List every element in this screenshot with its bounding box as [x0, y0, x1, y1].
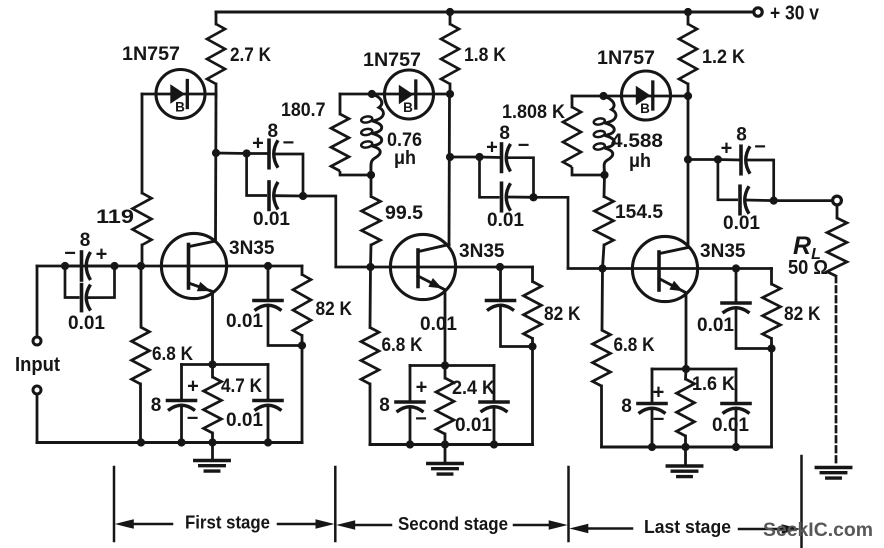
svg-text:First stage: First stage [185, 513, 270, 533]
wire 1.8K top lead [449, 12, 452, 24]
wire Q1 collector line [214, 96, 217, 241]
wire stage3 8cap bottom lead [651, 410, 654, 447]
wire RL top lead [836, 205, 839, 218]
wire L2 junction to 154.5 [603, 175, 606, 197]
resistor R 6.8K stage3 [593, 330, 611, 386]
wire 180.7 bottom lead [340, 171, 371, 175]
label Input [15, 354, 60, 376]
label 82 K stage1 [316, 298, 353, 320]
svg-text:SeekIC.com: SeekIC.com [763, 519, 873, 541]
svg-text:8: 8 [151, 395, 162, 416]
resistor R 6.8K stage2 [361, 328, 379, 385]
label + coupling1 [252, 133, 264, 155]
node stage1 base-cap junction [264, 262, 272, 270]
wire stage2 82K to rail [531, 347, 534, 445]
svg-text:B: B [175, 100, 185, 115]
svg-text:Input: Input [15, 354, 60, 376]
label 0.01 stage2 emitter [455, 414, 492, 436]
svg-text:4.588: 4.588 [611, 130, 663, 152]
wire stage2 82K bottom lead [531, 339, 534, 347]
wire stage1 0.01cap top lead [267, 365, 270, 401]
wire input top lead [36, 266, 39, 337]
capacitor 0.01 coupling2 [502, 183, 511, 211]
wire stage3 82K bottom lead [770, 339, 773, 349]
label 1.2 K [702, 46, 745, 68]
label 0.76 [387, 129, 422, 151]
node stage2 ground junction [441, 440, 449, 448]
wire stage3 8cap top lead [651, 369, 654, 404]
resistor R 82K stage1 [293, 275, 311, 336]
wire second stage right arrow [514, 520, 568, 530]
wire stage divider 4 [800, 456, 803, 548]
wire 1.6K top lead [684, 369, 687, 379]
wire coupling2 cap lead [480, 156, 500, 159]
wire stage2 ground rail [370, 443, 533, 446]
wire stage1 6.8K top lead [140, 266, 143, 327]
node coil L2 top junction [599, 92, 607, 100]
label 4.7 K [221, 375, 262, 397]
label 8 coupling2 [499, 123, 510, 144]
wire stage3 base line [568, 267, 772, 270]
wire input 0.01 lower right [88, 266, 115, 298]
label 0.01 stage2 base [420, 313, 457, 335]
wire coupling3 cap lead [718, 158, 739, 161]
svg-text:−: − [754, 136, 766, 158]
diode zener D1 1N757 lead wire [142, 93, 216, 96]
resistor R 4.7K [204, 377, 222, 433]
capacitor 0.01 coupling3 [740, 186, 749, 214]
wire stage3 base-cap bottom lead [736, 310, 772, 349]
label - coupling1 [283, 132, 295, 154]
svg-text:0.01: 0.01 [68, 312, 105, 334]
wire 2.7K bottom lead to zener node [215, 84, 218, 96]
wire coupling2 top [450, 156, 480, 159]
svg-text:119: 119 [96, 206, 134, 228]
ground RL [816, 468, 851, 479]
label D1 1N757 [122, 43, 180, 65]
label 0.01 stage3 base [697, 314, 734, 336]
label 8 coupling3 [736, 125, 747, 146]
node coupling3 left [714, 155, 722, 163]
node Q1 emitter junction [208, 360, 216, 368]
wire RL dashed ground line [835, 277, 838, 467]
svg-text:4.7 K: 4.7 K [221, 375, 262, 397]
svg-text:50 Ω: 50 Ω [788, 257, 828, 279]
resistor R 180.7 [331, 114, 349, 171]
label 99.5 [385, 202, 423, 224]
svg-text:−: − [653, 409, 665, 431]
svg-text:−: − [415, 408, 427, 430]
svg-text:180.7: 180.7 [281, 99, 326, 121]
svg-text:−: − [187, 408, 199, 430]
label 0.01 coupling2 [487, 209, 524, 231]
node stage2 base node [366, 263, 374, 271]
label 6.8 K stage2 [382, 334, 423, 356]
label First stage [185, 513, 270, 533]
label Q3 3N35 [700, 240, 746, 262]
svg-text:1.808 K: 1.808 K [502, 101, 565, 123]
node rail-1.8K junction [446, 8, 454, 16]
label 2.4 K [452, 377, 495, 399]
wire Q3 collector line [687, 97, 690, 248]
svg-text:3N35: 3N35 [700, 240, 746, 262]
terminal input top [33, 337, 41, 345]
node coil L2 bottom junction [600, 171, 608, 179]
svg-text:+: + [416, 377, 428, 399]
wire stage1 82K bottom lead [301, 336, 304, 346]
transistor Q2 3N35 [390, 234, 455, 299]
wire Q2 collector diag [419, 245, 450, 252]
wire stage3 6.8K bottom lead [600, 386, 603, 447]
emitter Q2 arrow [418, 276, 446, 290]
wire Q3 collector diag [660, 248, 689, 254]
node stage3 base-cap junction [732, 264, 740, 272]
node stage2 collector coupling [446, 153, 454, 161]
svg-text:Second stage: Second stage [398, 514, 508, 534]
label 0.01 stage1 base [226, 310, 263, 332]
label + stage1 emitter [187, 376, 199, 398]
svg-text:1.2 K: 1.2 K [702, 46, 745, 68]
wire coupling3 lower right [746, 199, 774, 202]
label 82 K stage3 [784, 303, 821, 325]
wire stage1 base-cap top lead [267, 266, 270, 301]
svg-text:6.8 K: 6.8 K [382, 334, 423, 356]
wire Q2 collector line [448, 96, 451, 245]
wire coupling1 top [216, 152, 247, 155]
ground stage3 [667, 466, 702, 477]
svg-text:1.8 K: 1.8 K [464, 44, 506, 66]
wire stage2 8cap top lead [409, 366, 412, 403]
svg-text:+: + [187, 376, 199, 398]
svg-text:0.01: 0.01 [420, 313, 457, 335]
wire stage divider 3 [567, 467, 570, 541]
svg-text:82 K: 82 K [316, 298, 353, 320]
resistor R 1.2K [679, 24, 697, 84]
label RL [793, 232, 821, 263]
node stage1 0.01cap rail [264, 438, 272, 446]
diode zener D1 1N757 [156, 70, 205, 119]
wire Q1 collector diag [189, 241, 216, 247]
wire stage1 emitter top line [182, 363, 269, 366]
transistor Q3 3N35 [632, 236, 697, 301]
node stage3 8cap rail [648, 443, 656, 451]
label 180.7 [281, 99, 326, 121]
label 50 ohm [788, 257, 828, 279]
label uh L1 [394, 147, 416, 169]
svg-text:1.6 K: 1.6 K [692, 373, 735, 395]
label 4.588 [611, 130, 663, 152]
inductor L1 0.76uh [361, 94, 384, 175]
wire stage3 82K to rail [770, 349, 773, 448]
label - stage2 emitter [415, 408, 427, 430]
node stage2 0.01cap rail [490, 440, 498, 448]
wire 1.6K bottom lead [684, 436, 687, 447]
svg-text:0.01: 0.01 [226, 310, 263, 332]
capacitor 0.01 coupling1 [269, 182, 278, 210]
svg-text:6.8 K: 6.8 K [614, 334, 655, 356]
wire 1.2K top lead [687, 12, 690, 24]
wire first stage right arrow [278, 519, 335, 529]
wire stage3 ground lead [684, 447, 687, 466]
label - stage1 emitter [187, 408, 199, 430]
wire L1 junction to 99.5 [370, 175, 373, 197]
label 1.8 K [464, 44, 506, 66]
wire D3 left lead down [571, 96, 574, 107]
inductor L2 4.588uh [593, 96, 616, 175]
wire D2 left lead down [339, 94, 342, 114]
resistor R 1.8K [441, 24, 459, 84]
wire stage2 emitter top line [410, 364, 494, 367]
node Q3 emitter junction [682, 365, 690, 373]
wire D1 left lead down [141, 94, 144, 193]
svg-text:0.01: 0.01 [487, 209, 524, 231]
svg-text:Last stage: Last stage [644, 517, 731, 537]
label SeekIC.com watermark [763, 519, 873, 541]
svg-text:0.01: 0.01 [723, 212, 760, 234]
label Second stage [398, 514, 508, 534]
capacitor 0.01 stage1 base [254, 301, 282, 311]
node stage1 6.8K rail [137, 438, 145, 446]
wire stage3 0.01cap top lead [735, 369, 738, 404]
svg-text:+ 30 v: + 30 v [770, 3, 820, 25]
wire stage1 82K to rail [301, 346, 304, 443]
svg-text:B: B [640, 101, 650, 116]
label uh L2 [629, 150, 651, 172]
label 8 coupling1 [268, 121, 279, 142]
wire first stage left arrow [115, 519, 172, 529]
node D3-R1.2K junction [684, 92, 692, 100]
wire stage1 ground rail [37, 441, 302, 444]
svg-text:0.01: 0.01 [253, 208, 290, 230]
wire coupling1 right top [275, 154, 303, 196]
resistor R 2.4K [436, 378, 454, 434]
label Q2 3N35 [459, 240, 505, 262]
wire input 0.01 lower left [65, 266, 80, 298]
node stage3 ground junction [681, 443, 689, 451]
wire stage2 base-cap bottom lead [501, 307, 533, 347]
resistor R 1.6K [677, 379, 695, 436]
svg-text:−: − [64, 243, 76, 265]
diode zener D2 1N757 lead wire [340, 93, 450, 96]
transistor Q1 3N35 [161, 233, 226, 298]
wire 4.7K bottom lead [211, 433, 214, 443]
node stage3 82K bottom [767, 344, 775, 352]
wire stage3 base-cap top lead [735, 269, 738, 304]
wire coupling1 lower right [275, 194, 303, 197]
svg-text:1N757: 1N757 [597, 47, 655, 69]
svg-text:3N35: 3N35 [229, 237, 275, 259]
label 8 stage3 emitter [621, 396, 632, 417]
wire second stage left arrow [336, 520, 391, 530]
label D3 1N757 [597, 47, 655, 69]
svg-text:8: 8 [499, 123, 510, 144]
svg-text:μh: μh [394, 147, 416, 169]
svg-text:+: + [486, 137, 498, 159]
wire stage3 emitter top line [652, 368, 736, 371]
label 0.01 stage1 emitter [226, 409, 263, 431]
label - coupling2 [518, 135, 530, 157]
resistor R 99.5 [362, 197, 381, 246]
wire stage1 6.8K bottom lead [139, 384, 142, 443]
node input cap left [61, 262, 69, 270]
terminal output [833, 196, 842, 205]
wire coupling2 to stage3 base [534, 197, 569, 268]
wire stage2 base line [336, 266, 533, 269]
wire input cap right [88, 265, 115, 268]
svg-text:+: + [721, 138, 733, 160]
diode zener D3 1N757 [622, 71, 671, 120]
node coupling2 left [475, 153, 483, 161]
wire input bottom lead [36, 394, 39, 443]
wire 1.2K bottom lead [687, 84, 690, 97]
label 6.8 K stage3 [614, 334, 655, 356]
wire 99.5 to base node [369, 245, 372, 267]
svg-text:3N35: 3N35 [459, 240, 505, 262]
wire 4.7K top lead [211, 365, 214, 378]
wire Q1 emitter line [211, 292, 214, 365]
node stage1 base node [137, 262, 145, 270]
wire coupling1 lower left [247, 154, 267, 196]
emitter Q1 arrow [189, 282, 214, 292]
wire coupling1 cap lead [247, 152, 267, 155]
svg-text:1N757: 1N757 [122, 43, 180, 65]
wire 119 to base node [141, 245, 144, 266]
label - coupling3 [754, 136, 766, 158]
wire +30V supply rail [216, 11, 753, 14]
wire 2.4K top lead [444, 366, 447, 379]
wire coupling3 top [688, 158, 718, 161]
svg-text:82 K: 82 K [784, 303, 821, 325]
label - input cap [64, 243, 76, 265]
resistor R 82K stage2 [524, 282, 542, 339]
label + input cap [96, 244, 108, 266]
wire last stage right arrow [739, 524, 801, 534]
label D1 B [175, 100, 185, 115]
svg-text:8: 8 [80, 230, 91, 251]
node stage3 collector coupling [684, 155, 692, 163]
wire last stage left arrow [569, 524, 632, 534]
wire stage3 82K top lead [770, 269, 773, 285]
label D2 B [403, 100, 413, 115]
wire stage1 base line [37, 265, 302, 268]
wire stage2 6.8K top lead [369, 267, 372, 328]
label 8 stage2 emitter [379, 395, 390, 416]
label Q1 3N35 [229, 237, 275, 259]
wire stage2 0.01cap top lead [493, 366, 496, 403]
wire stage2 ground lead [444, 445, 447, 464]
node input cap right [110, 262, 118, 270]
node stage1 ground junction [208, 438, 216, 446]
terminal input bottom [33, 386, 41, 394]
label 0.01 stage3 emitter [712, 414, 749, 436]
node stage2 82K bottom [528, 342, 536, 350]
node coil L1 bottom junction [367, 171, 375, 179]
svg-text:82 K: 82 K [544, 303, 581, 325]
diode zener D3 1N757 lead wire [572, 95, 688, 98]
label 119 [96, 206, 134, 228]
wire 1.8K bottom lead [449, 84, 452, 96]
capacitor 8 stage2 emitter [396, 402, 424, 412]
svg-text:+: + [252, 133, 264, 155]
label D3 B [640, 101, 650, 116]
svg-text:1N757: 1N757 [363, 49, 421, 71]
svg-text:8: 8 [736, 125, 747, 146]
capacitor 8 stage3 emitter [638, 404, 666, 414]
label 0.01 coupling3 [723, 212, 760, 234]
wire stage1 0.01cap bottom lead [267, 407, 270, 443]
node stage1 collector coupling [212, 149, 220, 157]
svg-text:+: + [96, 244, 108, 266]
capacitor 0.01 stage3 base [722, 303, 750, 313]
wire stage2 8cap bottom lead [409, 409, 412, 445]
resistor R 119 [133, 193, 152, 245]
capacitor 0.01 stage1 emitter [254, 401, 282, 411]
wire coupling2 right top [508, 158, 534, 198]
svg-text:0.01: 0.01 [712, 414, 749, 436]
wire stage divider 2 [334, 467, 337, 541]
label 0.01 coupling1 [253, 208, 290, 230]
resistor RL 50ohm [827, 218, 847, 277]
node coupling2 right [529, 193, 537, 201]
svg-text:99.5: 99.5 [385, 202, 423, 224]
label - stage3 emitter [653, 409, 665, 431]
wire stage2 6.8K bottom lead [369, 384, 372, 445]
wire 1.808K bottom lead [572, 167, 605, 175]
wire input cap lead [65, 265, 80, 268]
label D2 1N757 [363, 49, 421, 71]
node D2-R1.8K junction [446, 90, 454, 98]
wire stage1 8cap bottom lead [180, 407, 183, 443]
capacitor 0.01 stage2 emitter [480, 402, 508, 412]
label 1.6 K [692, 373, 735, 395]
node Q2 emitter junction [441, 361, 449, 369]
svg-text:6.8 K: 6.8 K [152, 343, 193, 365]
wire stage1 base-cap bottom lead [268, 307, 302, 346]
wire Q2 emitter line [444, 293, 447, 366]
wire coupling2 lower left [480, 157, 500, 197]
svg-text:2.4 K: 2.4 K [452, 377, 495, 399]
resistor R 82K stage3 [763, 284, 781, 339]
label 1.808 K [502, 101, 565, 123]
node stage1 8cap rail [177, 438, 185, 446]
label 6.8 K stage1 [152, 343, 193, 365]
node stage3 0.01cap rail [732, 443, 740, 451]
wire stage2 base-cap top lead [499, 267, 502, 301]
label + stage3 emitter [653, 382, 665, 404]
label + coupling2 [486, 137, 498, 159]
svg-text:0.01: 0.01 [455, 414, 492, 436]
node coupling1 right [299, 192, 307, 200]
label 2.7 K [230, 44, 271, 66]
capacitor 8 input [82, 252, 91, 280]
ground stage1 [195, 461, 230, 472]
svg-text:154.5: 154.5 [615, 201, 663, 223]
label 0.01 input [68, 312, 105, 334]
terminal +30 v [754, 8, 762, 16]
wire stage1 8cap top lead [180, 365, 183, 401]
svg-text:B: B [403, 100, 413, 115]
node coil L1 top junction [368, 90, 376, 98]
wire stage2 0.01cap bottom lead [493, 409, 496, 445]
capacitor 8 coupling3 [741, 146, 750, 174]
label 82 K stage2 [544, 303, 581, 325]
label +30 v [770, 3, 820, 25]
wire stage3 6.8K top lead [601, 269, 604, 331]
capacitor 8 stage1 emitter [168, 401, 196, 411]
svg-text:8: 8 [379, 395, 390, 416]
capacitor 8 coupling2 [502, 144, 511, 172]
resistor R 2.7K [207, 24, 225, 84]
